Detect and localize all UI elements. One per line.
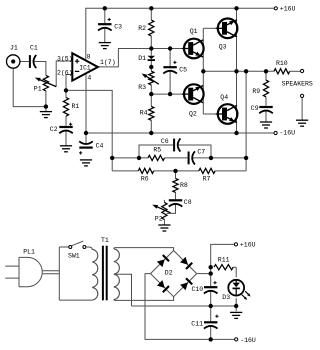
primary winding T1 [92,249,98,300]
label C1 [30,45,38,52]
wire C5 stubs [169,49,171,95]
label C9 [251,105,259,112]
svg-text:R3: R3 [138,84,146,91]
ground C2 [60,146,72,152]
wire J1 to C1 [21,61,29,63]
resistor R1 [63,98,68,117]
ground D3 [230,312,242,318]
wire J1 ground run [13,69,46,107]
pin label 1(7) [100,59,116,66]
wiper arrow R3 [142,74,159,85]
resistor R7 [199,168,215,173]
label D2 [165,269,173,276]
svg-text:IC1: IC1 [79,65,90,72]
wire C9 ground stem [265,111,267,122]
capacitor C2 [59,123,73,134]
resistor R10 [274,69,290,74]
terminal -16V top [274,131,277,134]
node -16V/C4 [84,131,88,135]
label +16V top [280,6,296,13]
wire P1 bottom [45,91,47,112]
terminal -16V bottom [235,338,238,341]
wire R11 branch [233,267,236,277]
label SW1 [68,253,80,260]
bridge D2 edges [151,251,197,297]
switch SW1 [69,241,86,248]
svg-text:P1: P1 [34,86,42,93]
wire R2 stubs [150,8,152,48]
capacitor C10 [204,281,218,293]
svg-text:C11: C11 [191,320,203,327]
wire +16V bottom riser [211,244,234,286]
wire C3 branch [104,8,106,42]
transistor Q2 [182,84,204,104]
label R2 [138,25,146,32]
capacitor C9 [259,106,273,113]
label PL1 [23,249,35,256]
wire R3 stubs [150,67,152,94]
node bridge plus [209,271,213,275]
svg-text:R7: R7 [203,176,211,183]
wire output line [203,70,300,72]
node C11 minus [209,337,213,341]
label C3 [114,24,122,31]
wire R8 stubs [175,171,177,199]
svg-text:+16U: +16U [240,241,256,248]
wire D1 stubs [150,49,152,68]
label D1 [138,55,146,62]
svg-text:R6: R6 [141,176,149,183]
node R3/R4/Q2-base [149,92,153,96]
svg-text:R4: R4 [140,109,148,116]
label R7 [203,176,211,183]
wire secondary top to bridge [114,248,174,251]
svg-text:R11: R11 [218,257,230,264]
svg-text:Q1: Q1 [190,28,198,35]
svg-text:Q2: Q2 [189,110,197,117]
svg-text:D3: D3 [222,294,230,301]
wire bridge plus [197,273,211,275]
svg-text:R9: R9 [252,88,260,95]
label -16V bottom [240,337,256,344]
node output/R9 [264,69,268,73]
node C10/C11 0V [209,304,213,308]
node C5 bottom [168,92,172,96]
svg-text:Q3: Q3 [219,43,227,50]
wire speaker return ground [301,98,303,120]
svg-text:C10: C10 [192,286,204,293]
wire primary top [59,246,69,248]
label R5 [153,147,161,154]
terminal speakers hot [301,69,304,72]
wire C2 ground stem [65,131,67,146]
svg-text:R1: R1 [72,103,80,110]
wiper arrow P2 [152,205,170,213]
secondary winding T1 [114,249,120,300]
capacitor C7 [188,151,195,164]
wire R1 stubs [65,90,67,125]
wire feedback row lower [112,170,246,172]
wire P2 ground stem [163,220,165,225]
op-amp IC1 [72,53,98,80]
resistor R9 [263,80,268,97]
wire op-amp output to Q1 base line [98,49,183,67]
terminal +16V top [274,7,277,10]
node D3 ground [234,304,238,308]
label R8 [180,182,188,189]
transformer T1 core [102,246,108,301]
svg-text:SPEAKERS: SPEAKERS [282,81,313,88]
wire C10 lower stem [210,291,212,306]
label C10 [192,286,204,293]
svg-text:Q4: Q4 [220,94,228,101]
resistor R11 [214,265,233,270]
wire P2 top stub [163,200,165,203]
label R6 [141,176,149,183]
wire C6 loop [139,145,211,158]
label D3 [222,294,230,301]
node feedback B [244,156,248,160]
wire D3 to 0V [235,298,237,311]
svg-text:R2: R2 [138,25,146,32]
capacitor C1 [29,55,36,68]
capacitor C4 [79,141,93,154]
svg-text:P2: P2 [155,215,163,222]
ground C3 [99,43,111,49]
svg-text:R10: R10 [276,60,288,67]
label J1 [10,45,18,52]
wire feedback row upper [112,157,246,159]
node feedback A [110,156,114,160]
bridge diode D2d [180,278,192,290]
wire 0V line [132,305,237,307]
resistor R8 [173,178,178,192]
svg-text:-16U: -16U [240,337,256,344]
svg-text:3(5): 3(5) [57,55,73,62]
wire IC1 pin8 riser [85,8,87,61]
wire C11 stems [210,306,212,339]
node output/feedback [244,69,248,73]
wire IC1 pin4 riser [85,74,87,144]
svg-text:2(6): 2(6) [57,69,73,76]
wire Q3 base line [203,27,217,29]
label IC1 [79,65,90,72]
trimmer R3 [149,71,154,85]
label R10 [276,60,288,67]
wire +16V top rail [86,7,274,9]
label R11 [218,257,230,264]
wire R4 stubs [150,94,152,133]
wire -16V bottom line [211,338,235,340]
label R9 [252,88,260,95]
node +16V/Q3 [234,6,238,10]
label Q2 [189,110,197,117]
node output/Q1Q2 [201,69,205,73]
resistor R5 [148,155,165,160]
pin label 4 [87,74,91,81]
label P1 [34,86,42,93]
wire Q4 base line [203,113,216,115]
ground speaker return [296,120,308,126]
potentiometer P1 [43,75,48,91]
wire switch to primary [86,247,92,250]
terminal +16V bottom [234,243,237,246]
svg-text:C8: C8 [184,199,192,206]
wire secondary bottom to bridge [114,297,174,301]
label +16V bottom [240,241,256,248]
terminal speakers return [301,94,304,97]
svg-text:SW1: SW1 [68,253,80,260]
bridge diode D2a [157,255,169,267]
label C5 [179,66,187,73]
svg-text:+16U: +16U [280,6,296,13]
LED D3 [228,279,244,296]
svg-text:T1: T1 [101,237,109,244]
label Q3 [219,43,227,50]
node C6 right [209,156,213,160]
wire pin2 to node [66,75,72,91]
svg-text:C7: C7 [197,148,205,155]
label R4 [140,109,148,116]
node -16V/Q4 [234,131,238,135]
wire -16V rail [86,132,274,134]
svg-text:1(7): 1(7) [100,59,116,66]
resistor R2 [149,20,154,36]
node +16V/R2 [149,6,153,10]
label Q4 [220,94,228,101]
transistor Q1 [182,39,204,59]
svg-text:8: 8 [87,53,91,60]
diode D1 [148,56,155,60]
svg-text:C2: C2 [50,126,58,133]
node +16V/C3 [103,6,107,10]
label Q1 [190,28,198,35]
pin label 2(6) [57,69,73,76]
wire secondary tap [115,274,132,306]
svg-text:C6: C6 [161,138,169,145]
capacitor C5 [163,61,177,74]
label C7 [197,148,205,155]
node C6 left [137,156,141,160]
label T1 [101,237,109,244]
svg-text:R5: R5 [153,147,161,154]
svg-text:C4: C4 [96,143,104,150]
wire P1 wiper to pin3 [56,61,72,87]
node R2/D1/base [149,46,153,50]
wire bridge minus run [145,274,209,340]
svg-text:4: 4 [87,74,91,81]
capacitor C8 [169,199,183,206]
svg-text:D1: D1 [138,55,146,62]
wire primary loop left [58,247,60,300]
label R1 [72,103,80,110]
node output/Q3Q4 [234,69,238,73]
svg-text:C5: C5 [179,66,187,73]
capacitor C6 [173,138,180,151]
label P2 [155,215,163,222]
label C4 [96,143,104,150]
bridge diode D2c [157,280,169,292]
plug PL1 [5,257,42,286]
pin label 8 [87,53,91,60]
wire C1 to P1 [34,62,46,76]
transistor Q4 [216,104,238,124]
svg-text:C3: C3 [114,24,122,31]
ground P1 [40,112,52,118]
node R11 tap [209,265,213,269]
trimmer P2 [162,202,167,219]
node C5 top [168,46,172,50]
label C2 [50,126,58,133]
wiper arrow P1 [35,78,56,87]
wire C8 to P2 wiper [166,204,175,213]
wire Q2 base line [151,93,182,95]
transistor Q3 [216,19,238,39]
label C8 [184,199,192,206]
svg-text:C1: C1 [30,45,38,52]
label -16V top [279,129,295,136]
wire primary bottom [59,299,92,301]
wire R9 stubs [265,71,267,105]
LED D3 arrows [242,291,251,300]
label C6 [161,138,169,145]
node D1/R3 [149,65,153,69]
wire mains cable [43,271,60,274]
connector J1 [7,55,20,68]
ground P2 [158,225,170,231]
svg-text:C9: C9 [251,105,259,112]
ground C9 [260,122,272,128]
node P1/J1 ground [44,104,48,108]
pin label 3(5) [57,55,73,62]
wire Q3-Q4 column [236,8,238,133]
svg-text:-16U: -16U [279,129,295,136]
svg-text:PL1: PL1 [23,249,35,256]
capacitor C3 [98,18,112,31]
svg-text:D2: D2 [165,269,173,276]
resistor R6 [138,168,153,173]
label C11 [191,320,203,327]
node -16V/R4 [149,131,153,135]
bridge diode D2b [180,257,192,269]
resistor R4 [149,106,154,120]
node pin2/R1/feedback [64,88,68,92]
node R6/R7/R8 [173,169,177,173]
wire Q1-Q2 column [202,28,204,114]
capacitor C11 [204,315,219,329]
svg-text:J1: J1 [10,45,18,52]
svg-text:R8: R8 [180,182,188,189]
wire feedback run [66,90,112,170]
ground C4 [80,160,92,166]
label SPEAKERS [282,81,313,88]
label R3 [138,84,146,91]
wire output node riser [245,71,247,171]
